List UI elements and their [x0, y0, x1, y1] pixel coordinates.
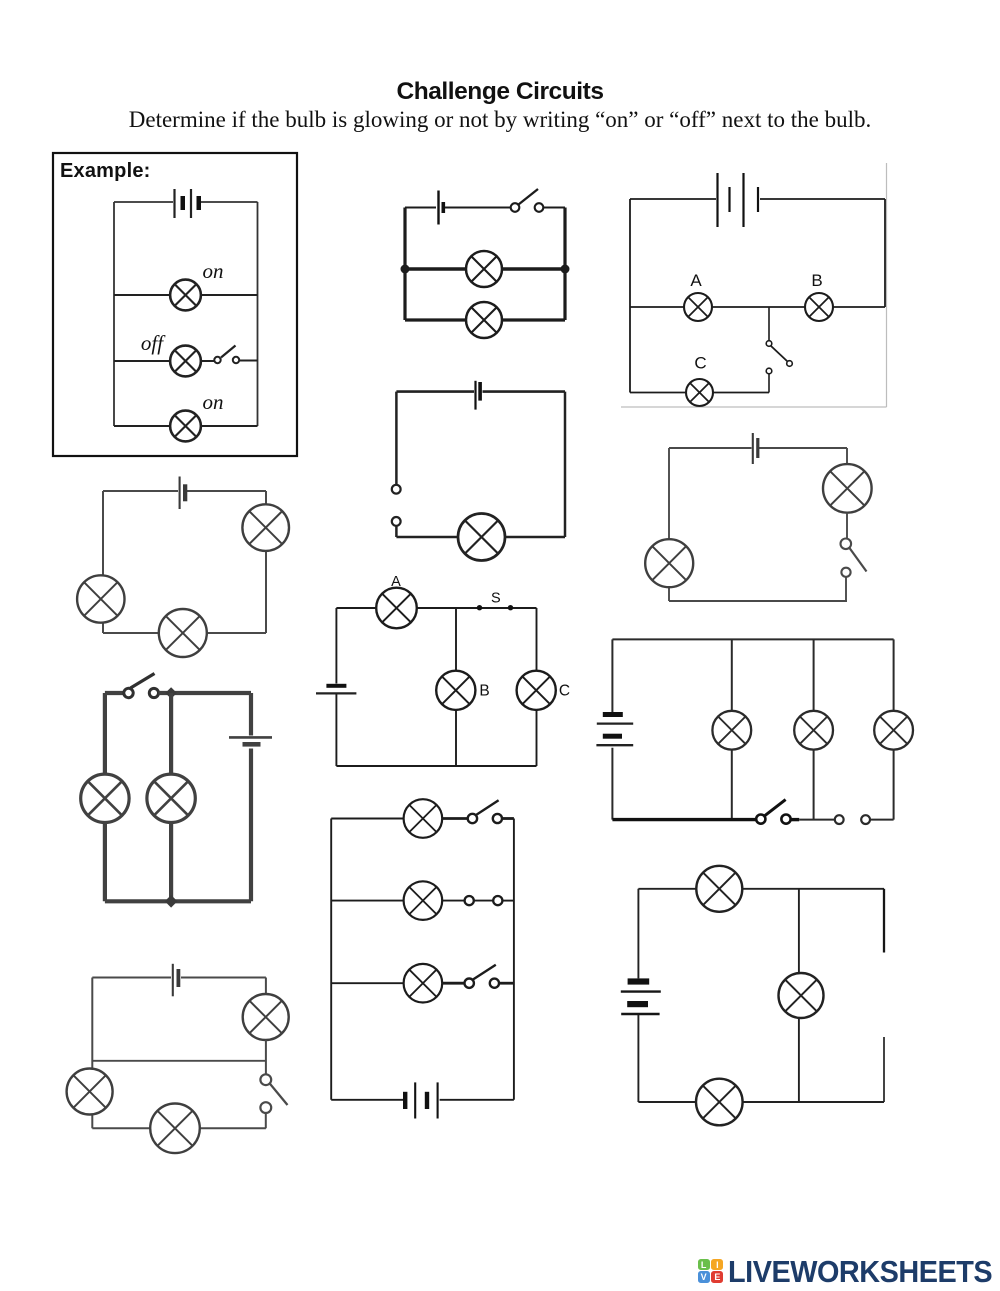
svg-text:A: A: [690, 271, 702, 290]
svg-text:off: off: [141, 331, 166, 355]
svg-text:S: S: [491, 591, 501, 607]
svg-text:A: A: [391, 574, 401, 590]
svg-text:C: C: [559, 683, 570, 700]
svg-text:B: B: [479, 683, 489, 700]
svg-text:on: on: [203, 390, 224, 414]
svg-text:on: on: [203, 259, 224, 283]
svg-text:C: C: [694, 354, 706, 373]
svg-text:Example:: Example:: [60, 160, 151, 182]
svg-text:B: B: [811, 271, 822, 290]
